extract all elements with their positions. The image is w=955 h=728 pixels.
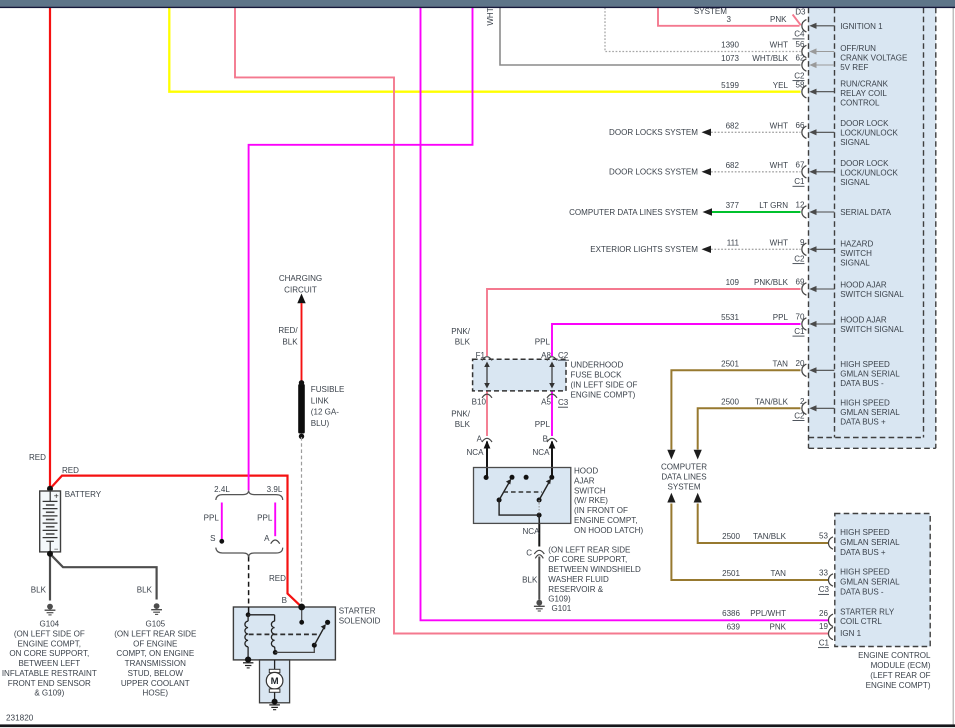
svg-text:SWITCH: SWITCH (840, 249, 872, 258)
svg-text:C4: C4 (794, 30, 805, 39)
svg-text:BLK: BLK (455, 337, 471, 346)
svg-text:BLK: BLK (455, 420, 471, 429)
svg-text:TAN: TAN (773, 359, 789, 368)
svg-text:OF ENGINE: OF ENGINE (133, 639, 178, 648)
svg-text:5531: 5531 (721, 313, 739, 322)
svg-text:HIGH SPEED: HIGH SPEED (840, 568, 890, 577)
svg-text:& G109): & G109) (34, 689, 64, 698)
svg-text:C3: C3 (819, 585, 830, 594)
svg-text:PPL: PPL (535, 337, 551, 346)
svg-text:M: M (271, 676, 279, 687)
svg-text:STARTER: STARTER (339, 606, 376, 615)
svg-text:DATA BUS -: DATA BUS - (840, 587, 884, 596)
svg-text:ENGINE COMPT,: ENGINE COMPT, (18, 639, 82, 648)
svg-text:GMLAN SERIAL: GMLAN SERIAL (840, 538, 900, 547)
svg-text:CRANK VOLTAGE: CRANK VOLTAGE (840, 54, 908, 63)
svg-text:ENGINE CONTROL: ENGINE CONTROL (858, 651, 931, 660)
svg-text:109: 109 (726, 278, 740, 287)
svg-text:GMLAN SERIAL: GMLAN SERIAL (840, 408, 900, 417)
svg-text:C1: C1 (794, 177, 805, 186)
svg-text:53: 53 (819, 532, 828, 541)
svg-text:SWITCH SIGNAL: SWITCH SIGNAL (840, 290, 904, 299)
svg-text:377: 377 (726, 201, 740, 210)
svg-text:A: A (477, 434, 483, 443)
svg-text:2501: 2501 (721, 359, 739, 368)
svg-text:RED: RED (269, 574, 286, 583)
svg-text:ENGINE COMPT,: ENGINE COMPT, (574, 516, 638, 525)
svg-text:5V REF: 5V REF (840, 63, 868, 72)
svg-text:B: B (543, 434, 548, 443)
svg-text:LINK: LINK (311, 396, 330, 405)
svg-text:PNK: PNK (770, 15, 787, 24)
svg-text:PPL: PPL (257, 513, 273, 522)
svg-text:111: 111 (727, 238, 740, 247)
svg-text:3: 3 (727, 15, 732, 24)
svg-text:RED/: RED/ (278, 326, 298, 335)
svg-text:BATTERY: BATTERY (65, 490, 102, 499)
svg-text:BETWEEN WINDSHIELD: BETWEEN WINDSHIELD (548, 565, 641, 574)
svg-text:INFLATABLE RESTRAINT: INFLATABLE RESTRAINT (2, 669, 97, 678)
svg-text:SYSTEM: SYSTEM (694, 7, 727, 16)
svg-text:G101: G101 (552, 604, 572, 613)
svg-text:DOOR LOCK: DOOR LOCK (840, 159, 889, 168)
svg-text:PNK/: PNK/ (451, 327, 471, 336)
svg-text:WASHER FLUID: WASHER FLUID (548, 575, 609, 584)
svg-text:SIGNAL: SIGNAL (840, 178, 870, 187)
svg-text:231820: 231820 (6, 714, 34, 723)
svg-text:G105: G105 (145, 620, 165, 629)
svg-text:ENGINE COMPT): ENGINE COMPT) (571, 391, 636, 400)
svg-text:CIRCUIT: CIRCUIT (284, 285, 317, 294)
svg-text:EXTERIOR LIGHTS SYSTEM: EXTERIOR LIGHTS SYSTEM (590, 245, 698, 254)
svg-text:UPPER COOLANT: UPPER COOLANT (121, 679, 190, 688)
svg-text:C1: C1 (794, 327, 805, 336)
svg-text:WHT: WHT (770, 238, 788, 247)
svg-text:HIGH SPEED: HIGH SPEED (840, 398, 890, 407)
svg-text:TAN/BLK: TAN/BLK (753, 532, 787, 541)
svg-text:26: 26 (819, 609, 828, 618)
svg-text:682: 682 (726, 121, 740, 130)
svg-text:1390: 1390 (721, 41, 739, 50)
svg-text:PNK/BLK: PNK/BLK (754, 278, 789, 287)
svg-text:UNDERHOOD: UNDERHOOD (571, 361, 624, 370)
svg-text:AJAR: AJAR (574, 477, 595, 486)
svg-text:WHT: WHT (770, 161, 788, 170)
svg-text:PNK: PNK (769, 622, 786, 631)
svg-text:A: A (264, 534, 270, 543)
svg-text:DOOR LOCK: DOOR LOCK (840, 119, 889, 128)
svg-text:PPL: PPL (535, 420, 551, 429)
svg-text:6386: 6386 (722, 609, 740, 618)
svg-text:TRANSMISSION: TRANSMISSION (125, 659, 186, 668)
svg-text:DATA BUS +: DATA BUS + (840, 418, 886, 427)
svg-text:ON HOOD LATCH): ON HOOD LATCH) (574, 526, 643, 535)
svg-text:RUN/CRANK: RUN/CRANK (840, 79, 888, 88)
svg-text:PPL: PPL (204, 513, 220, 522)
svg-text:NCA: NCA (533, 448, 551, 457)
svg-text:C1: C1 (819, 638, 830, 647)
svg-text:BLK: BLK (31, 586, 47, 595)
svg-text:DATA BUS -: DATA BUS - (840, 379, 884, 388)
svg-text:BETWEEN LEFT: BETWEEN LEFT (18, 659, 80, 668)
svg-text:BLK: BLK (522, 576, 538, 585)
svg-text:WHT/BLK: WHT/BLK (752, 54, 788, 63)
svg-text:COMPUTER: COMPUTER (661, 463, 707, 472)
svg-text:WHT: WHT (770, 41, 788, 50)
svg-text:NCA: NCA (523, 527, 541, 536)
svg-text:(W/ RKE): (W/ RKE) (574, 496, 608, 505)
svg-text:DOOR LOCKS SYSTEM: DOOR LOCKS SYSTEM (609, 128, 698, 137)
svg-text:FRONT END SENSOR: FRONT END SENSOR (8, 679, 91, 688)
svg-text:HIGH SPEED: HIGH SPEED (840, 360, 890, 369)
svg-text:682: 682 (726, 161, 740, 170)
svg-text:1073: 1073 (721, 54, 739, 63)
svg-text:TAN: TAN (771, 569, 787, 578)
svg-text:RESERVOIR &: RESERVOIR & (548, 585, 603, 594)
svg-text:STUD, BELOW: STUD, BELOW (128, 669, 184, 678)
svg-text:WHT: WHT (486, 7, 495, 25)
svg-text:BLK: BLK (137, 586, 153, 595)
svg-text:GMLAN SERIAL: GMLAN SERIAL (840, 370, 900, 379)
svg-text:OFF/RUN: OFF/RUN (840, 44, 876, 53)
svg-text:SWITCH SIGNAL: SWITCH SIGNAL (840, 325, 904, 334)
svg-text:DATA LINES: DATA LINES (661, 473, 706, 482)
svg-text:(ON LEFT REAR SIDE: (ON LEFT REAR SIDE (548, 545, 631, 554)
svg-text:OF CORE SUPPORT,: OF CORE SUPPORT, (548, 555, 627, 564)
svg-text:S: S (210, 534, 215, 543)
svg-text:(LEFT REAR OF: (LEFT REAR OF (870, 671, 930, 680)
svg-text:HOSE): HOSE) (143, 689, 169, 698)
svg-text:STARTER RLY: STARTER RLY (840, 607, 895, 616)
svg-text:3.9L: 3.9L (267, 485, 283, 494)
svg-text:SIGNAL: SIGNAL (840, 138, 870, 147)
svg-text:2500: 2500 (722, 532, 740, 541)
svg-text:C: C (526, 548, 532, 557)
svg-text:G109): G109) (548, 595, 571, 604)
svg-text:2.4L: 2.4L (214, 485, 230, 494)
svg-text:(IN FRONT OF: (IN FRONT OF (574, 506, 628, 515)
svg-text:(ON LEFT SIDE OF: (ON LEFT SIDE OF (14, 630, 85, 639)
svg-text:+: + (54, 490, 59, 500)
svg-text:B: B (282, 596, 287, 605)
svg-text:SERIAL DATA: SERIAL DATA (840, 208, 891, 217)
svg-text:LOCK/UNLOCK: LOCK/UNLOCK (840, 129, 898, 138)
svg-text:G104: G104 (39, 620, 59, 629)
svg-text:SIGNAL: SIGNAL (840, 259, 870, 268)
svg-text:ENGINE COMPT): ENGINE COMPT) (866, 681, 931, 690)
svg-text:−: − (54, 544, 59, 553)
svg-text:33: 33 (819, 569, 828, 578)
svg-text:SOLENOID: SOLENOID (339, 617, 381, 626)
svg-text:COIL CTRL: COIL CTRL (840, 617, 882, 626)
svg-text:COMPUTER DATA LINES SYSTEM: COMPUTER DATA LINES SYSTEM (569, 208, 698, 217)
svg-text:19: 19 (819, 622, 828, 631)
svg-text:C3: C3 (558, 398, 569, 407)
svg-text:C2: C2 (558, 351, 569, 360)
svg-text:2500: 2500 (721, 397, 739, 406)
svg-text:DATA BUS +: DATA BUS + (840, 548, 886, 557)
svg-text:CONTROL: CONTROL (840, 99, 880, 108)
svg-text:(12 GA-: (12 GA- (311, 408, 339, 417)
svg-text:MODULE (ECM): MODULE (ECM) (871, 661, 931, 670)
svg-text:(ON LEFT REAR SIDE: (ON LEFT REAR SIDE (114, 630, 197, 639)
svg-text:BLK: BLK (282, 337, 298, 346)
svg-text:FUSIBLE: FUSIBLE (311, 385, 345, 394)
svg-text:C2: C2 (794, 254, 805, 263)
svg-text:B10: B10 (472, 397, 487, 406)
svg-text:BLU): BLU) (311, 419, 330, 428)
svg-text:C2: C2 (794, 411, 805, 420)
svg-text:WHT: WHT (770, 121, 788, 130)
svg-text:(IN LEFT SIDE OF: (IN LEFT SIDE OF (571, 381, 638, 390)
svg-text:SWITCH: SWITCH (574, 486, 606, 495)
svg-text:RELAY COIL: RELAY COIL (840, 89, 887, 98)
svg-text:A8: A8 (541, 351, 551, 360)
svg-text:5199: 5199 (721, 81, 739, 90)
svg-text:IGN 1: IGN 1 (840, 629, 862, 638)
svg-text:YEL: YEL (773, 81, 789, 90)
svg-text:LOCK/UNLOCK: LOCK/UNLOCK (840, 169, 898, 178)
svg-text:GMLAN SERIAL: GMLAN SERIAL (840, 578, 900, 587)
svg-text:A5: A5 (541, 397, 551, 406)
svg-text:COMPT, ON ENGINE: COMPT, ON ENGINE (116, 649, 194, 658)
svg-text:IGNITION 1: IGNITION 1 (840, 22, 883, 31)
svg-text:FUSE BLOCK: FUSE BLOCK (571, 371, 623, 380)
svg-text:HIGH SPEED: HIGH SPEED (840, 528, 890, 537)
svg-text:DOOR LOCKS SYSTEM: DOOR LOCKS SYSTEM (609, 168, 698, 177)
svg-text:LT GRN: LT GRN (759, 201, 788, 210)
svg-text:HOOD AJAR: HOOD AJAR (840, 315, 887, 324)
svg-text:ON CORE SUPPORT,: ON CORE SUPPORT, (9, 649, 89, 658)
svg-text:SYSTEM: SYSTEM (667, 482, 700, 491)
svg-text:HOOD AJAR: HOOD AJAR (840, 280, 887, 289)
svg-text:PPL: PPL (773, 313, 789, 322)
svg-text:CHARGING: CHARGING (279, 274, 322, 283)
svg-text:C2: C2 (794, 71, 805, 80)
svg-text:HOOD: HOOD (574, 467, 598, 476)
svg-text:NCA: NCA (467, 448, 485, 457)
svg-text:F1: F1 (476, 351, 486, 360)
svg-text:PNK/: PNK/ (451, 409, 471, 418)
svg-text:PPL/WHT: PPL/WHT (750, 609, 786, 618)
svg-text:RED: RED (62, 466, 79, 475)
svg-text:RED: RED (29, 453, 46, 462)
svg-text:TAN/BLK: TAN/BLK (755, 397, 789, 406)
svg-text:2501: 2501 (722, 569, 740, 578)
svg-text:639: 639 (727, 622, 741, 631)
svg-text:HAZARD: HAZARD (840, 239, 873, 248)
svg-text:D3: D3 (795, 7, 806, 16)
